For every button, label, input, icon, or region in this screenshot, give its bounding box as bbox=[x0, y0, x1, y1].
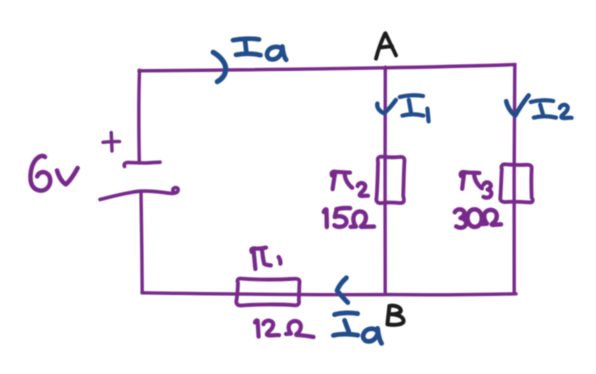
battery V1: - plate (long) bbox=[100, 188, 178, 200]
value label 30Ω bbox=[455, 209, 501, 227]
current arrow Ia on bottom wire (left-pointing) bbox=[337, 278, 348, 303]
label R2 bbox=[332, 172, 368, 196]
label R3 bbox=[461, 172, 492, 198]
label Ia (top) bbox=[233, 39, 286, 60]
value label 15Ω bbox=[324, 208, 374, 227]
resistor R2 body (box on middle branch) bbox=[376, 157, 404, 203]
current arrow I1 on middle branch bbox=[377, 100, 396, 113]
wire right branch: top-right corner down through R3 to bottom-right corner bbox=[512, 64, 516, 293]
resistor R3 body (box on right branch) bbox=[500, 164, 532, 202]
battery polarity label + bbox=[103, 133, 120, 151]
label Ia (bottom) bbox=[333, 313, 381, 344]
wire top: from battery + lead to node A and R3 branch bbox=[139, 65, 515, 71]
current arrow Ia on top wire (curved arrowhead) bbox=[213, 52, 226, 81]
value label 6v bbox=[30, 156, 77, 191]
resistor R1 body (box on bottom wire) bbox=[236, 278, 299, 305]
label I2 bbox=[531, 100, 572, 118]
battery V1: + plate (short) bbox=[124, 162, 160, 166]
label R1 bbox=[251, 248, 280, 269]
node B label bbox=[387, 306, 403, 325]
wire left vertical: top wire down to battery + plate bbox=[137, 70, 141, 163]
value label 12Ω bbox=[255, 320, 314, 337]
wire middle branch: node A down through R2 to node B bbox=[383, 67, 387, 294]
current arrow I2 on right branch bbox=[506, 95, 528, 115]
wire bottom: from left corner through R1 to node B and right corner bbox=[142, 293, 516, 295]
node A label bbox=[376, 33, 396, 58]
wire left vertical: battery - plate down to bottom wire bbox=[141, 192, 142, 293]
label I1 bbox=[400, 95, 429, 121]
